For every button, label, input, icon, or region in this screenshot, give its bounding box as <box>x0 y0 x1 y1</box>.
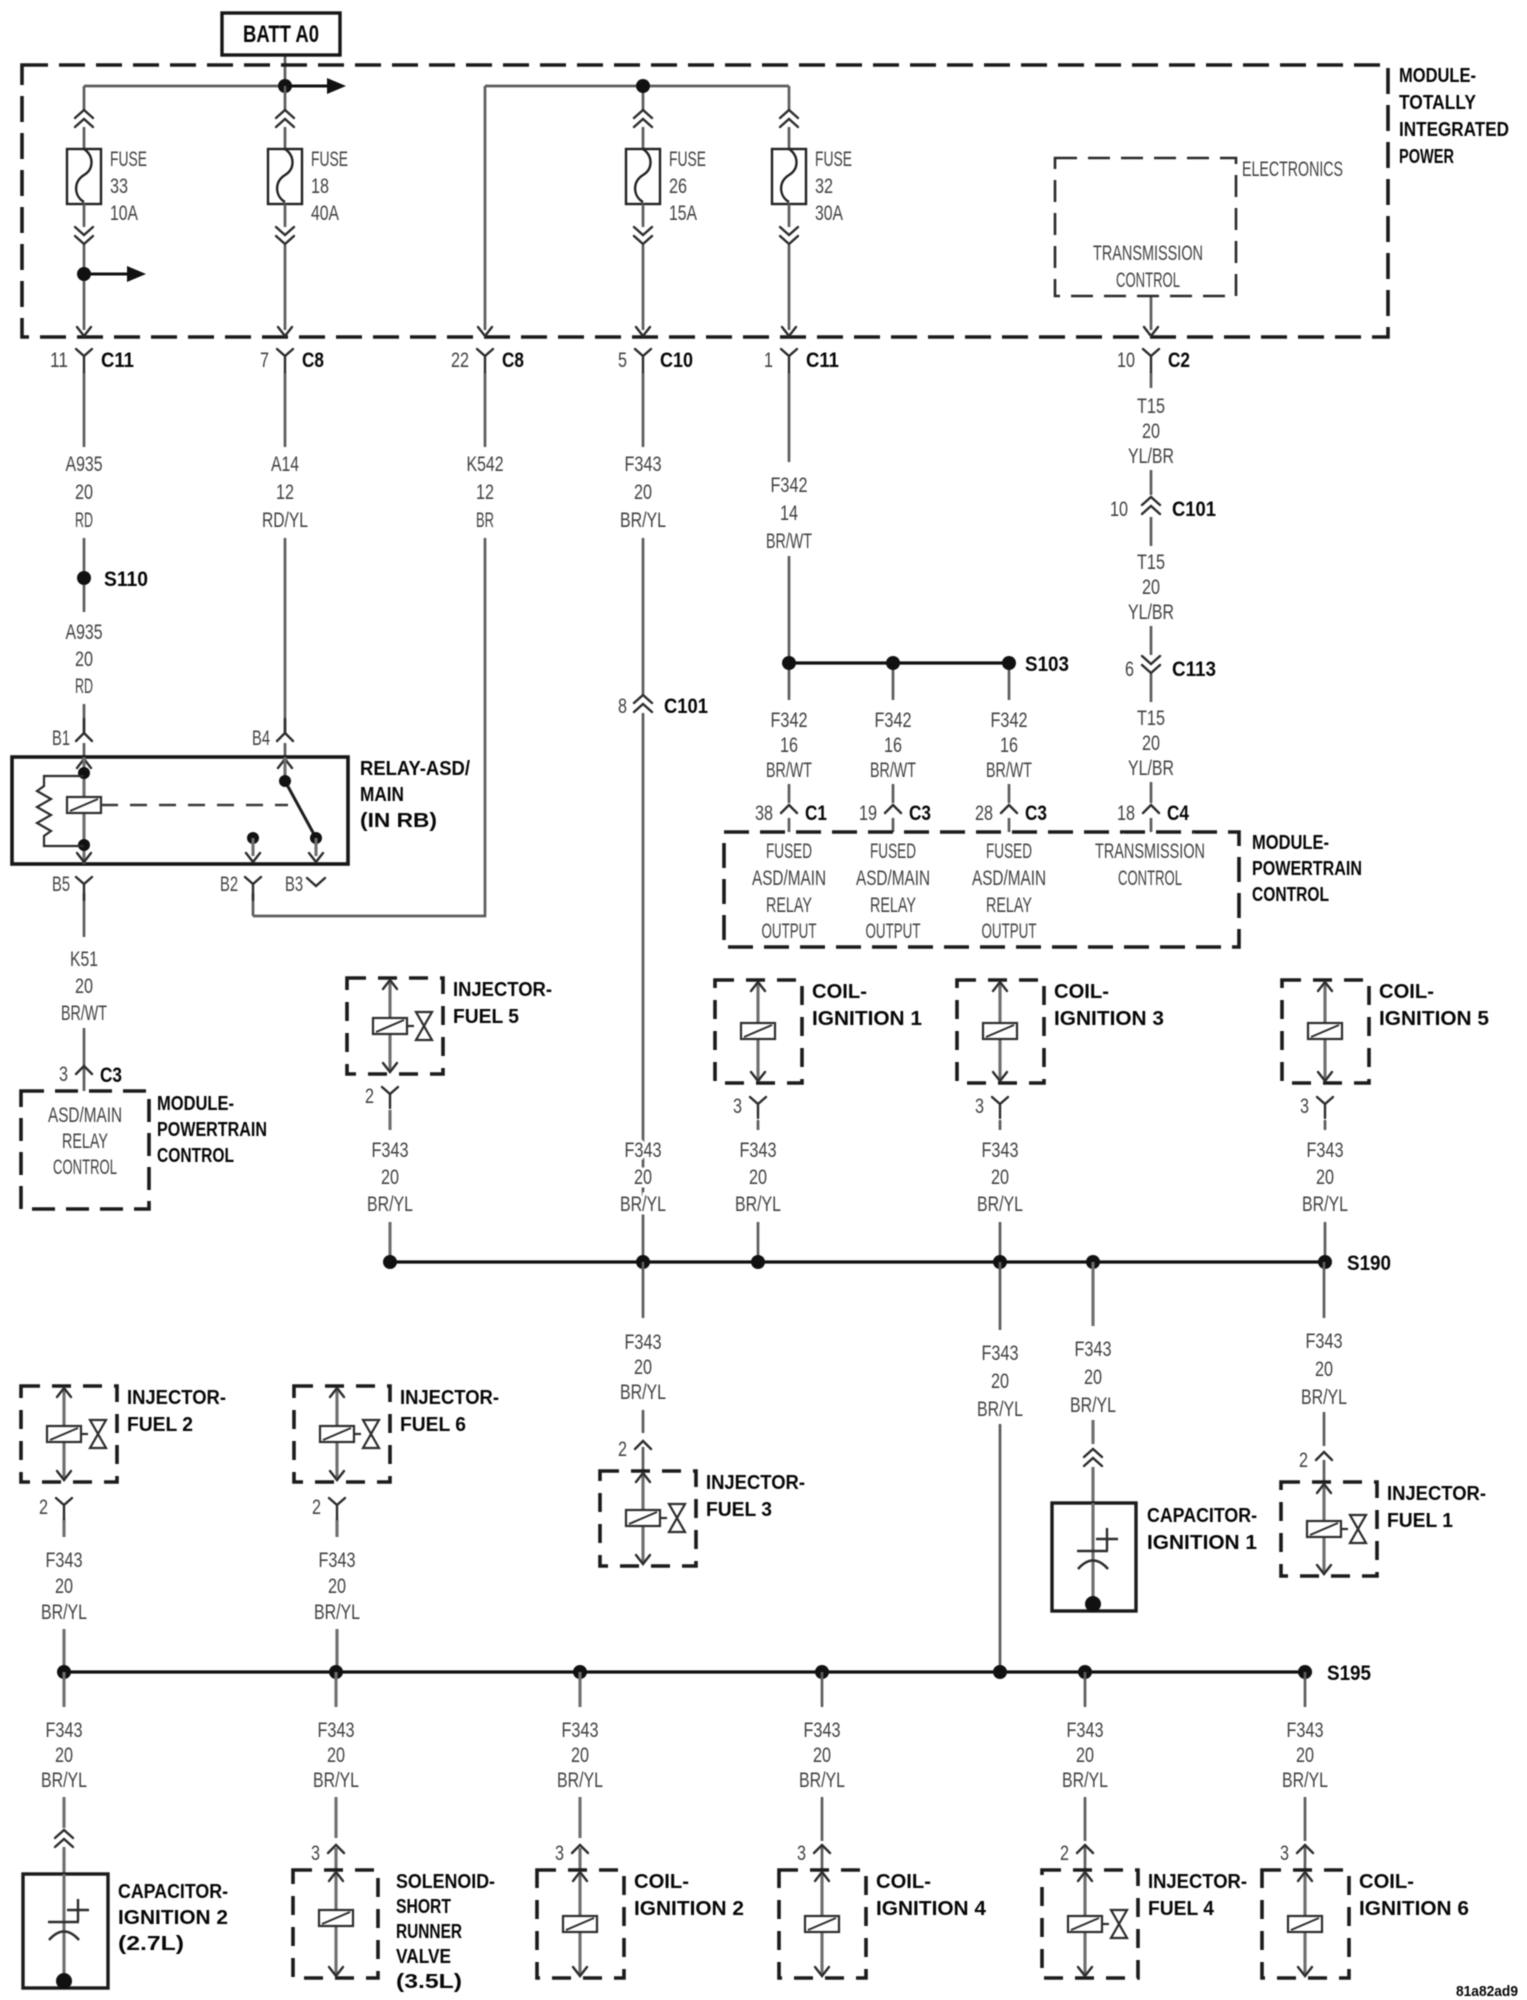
svg-text:INTEGRATED: INTEGRATED <box>1399 119 1509 141</box>
svg-text:FUEL 5: FUEL 5 <box>453 1006 519 1028</box>
svg-text:F343: F343 <box>1075 1338 1112 1361</box>
relay suppression resistor <box>37 776 84 846</box>
svg-text:18: 18 <box>311 175 329 198</box>
svg-text:ASD/MAIN: ASD/MAIN <box>972 867 1046 890</box>
svg-text:BR/YL: BR/YL <box>799 1769 845 1792</box>
svg-text:BR/YL: BR/YL <box>620 509 666 532</box>
svg-text:10: 10 <box>1117 349 1135 372</box>
wire fuse 18 lower <box>284 245 287 330</box>
svg-text:20: 20 <box>75 481 93 504</box>
svg-text:BR: BR <box>476 509 494 532</box>
splice dots S195 <box>57 1665 71 1679</box>
junction dot fused output tap <box>77 267 91 281</box>
svg-text:20: 20 <box>634 1356 652 1379</box>
svg-text:1: 1 <box>764 349 773 372</box>
svg-text:MODULE-: MODULE- <box>1399 65 1476 87</box>
wire arrow feed right of BATT junction <box>285 85 327 88</box>
svg-text:TRANSMISSION: TRANSMISSION <box>1093 242 1203 265</box>
wire A14 to relay B4 <box>284 538 287 733</box>
svg-text:BR/WT: BR/WT <box>986 759 1032 782</box>
wire fuse 33 column upper <box>83 86 86 110</box>
svg-text:INJECTOR-: INJECTOR- <box>400 1387 499 1409</box>
fuse F32 <box>772 110 852 244</box>
svg-text:3: 3 <box>59 1063 68 1086</box>
svg-text:YL/BR: YL/BR <box>1128 757 1174 780</box>
svg-text:11: 11 <box>50 349 68 372</box>
svg-text:20: 20 <box>1142 732 1160 755</box>
svg-text:B3: B3 <box>285 873 303 896</box>
svg-text:3: 3 <box>1280 1842 1289 1865</box>
wire A14 upper segment <box>284 372 287 447</box>
wire S195 to capacitor2 <box>62 1672 65 1707</box>
connector C10 pin 5 <box>618 327 693 372</box>
module powertrain control box left <box>21 1091 149 1209</box>
wire K542 segment <box>484 372 487 447</box>
svg-text:3: 3 <box>733 1095 742 1118</box>
svg-text:C1: C1 <box>805 802 827 825</box>
svg-text:T15: T15 <box>1137 707 1165 730</box>
fuse F18 <box>268 110 348 244</box>
svg-text:F343: F343 <box>46 1549 83 1572</box>
svg-text:32: 32 <box>815 175 833 198</box>
svg-text:2: 2 <box>618 1438 627 1461</box>
splice dots S190 <box>383 1255 397 1269</box>
wire S190 to S195 feed lower <box>999 1424 1002 1672</box>
svg-text:IGNITION 6: IGNITION 6 <box>1359 1898 1469 1920</box>
svg-text:A935: A935 <box>66 453 103 476</box>
svg-text:VALVE: VALVE <box>396 1946 451 1968</box>
wire B2 stub <box>252 893 255 916</box>
svg-text:F343: F343 <box>1306 1330 1343 1353</box>
module totally integrated power box <box>22 65 1388 337</box>
svg-text:F343: F343 <box>318 1719 355 1742</box>
svg-text:38: 38 <box>755 802 773 825</box>
svg-text:C11: C11 <box>101 349 134 372</box>
wire fuse 26 column upper <box>642 86 645 110</box>
svg-text:F343: F343 <box>562 1719 599 1742</box>
svg-text:C4: C4 <box>1167 802 1189 825</box>
ignition coil 5 <box>1282 980 1489 1083</box>
svg-text:7: 7 <box>260 349 269 372</box>
svg-text:20: 20 <box>1076 1744 1094 1767</box>
injector fuel 1 <box>1281 1482 1486 1576</box>
wire TCM electronics drop <box>1150 296 1153 330</box>
svg-text:FUEL 3: FUEL 3 <box>706 1499 772 1521</box>
svg-text:BR/WT: BR/WT <box>61 1002 107 1025</box>
svg-text:16: 16 <box>884 734 902 757</box>
injector5 pin 2 <box>382 1087 398 1108</box>
svg-text:T15: T15 <box>1137 395 1165 418</box>
splice S195 bus <box>64 1670 1312 1673</box>
svg-text:(2.7L): (2.7L) <box>118 1933 184 1955</box>
svg-text:ELECTRONICS: ELECTRONICS <box>1242 158 1343 181</box>
capacitor ignition 1 <box>1052 1503 1136 1612</box>
svg-text:CONTROL: CONTROL <box>53 1156 117 1179</box>
wire S190 to capacitor1 <box>1091 1262 1094 1326</box>
svg-text:C101: C101 <box>664 695 708 718</box>
svg-text:COIL-: COIL- <box>812 981 867 1003</box>
svg-text:INJECTOR-: INJECTOR- <box>706 1472 805 1494</box>
svg-text:IGNITION 1: IGNITION 1 <box>812 1008 922 1030</box>
relay normally-closed contact B2 <box>247 832 259 844</box>
svg-text:A935: A935 <box>66 621 103 644</box>
svg-text:18: 18 <box>1117 802 1135 825</box>
svg-text:2: 2 <box>1299 1449 1308 1472</box>
svg-text:IGNITION 4: IGNITION 4 <box>876 1898 987 1920</box>
svg-text:FUSE: FUSE <box>669 148 706 171</box>
wire F342 to splice S103 <box>788 556 791 663</box>
svg-text:COIL-: COIL- <box>1379 981 1434 1003</box>
svg-text:MODULE-: MODULE- <box>157 1093 234 1115</box>
svg-text:COIL-: COIL- <box>634 1871 689 1893</box>
svg-text:FUEL 4: FUEL 4 <box>1148 1898 1215 1920</box>
svg-text:RD/YL: RD/YL <box>262 509 308 532</box>
connector C3 pin 28 <box>1001 805 1017 813</box>
svg-text:C3: C3 <box>1025 802 1047 825</box>
svg-text:BR/WT: BR/WT <box>766 530 812 553</box>
svg-text:IGNITION 3: IGNITION 3 <box>1054 1008 1164 1030</box>
svg-text:BR/YL: BR/YL <box>313 1769 359 1792</box>
svg-text:BR/YL: BR/YL <box>977 1398 1023 1421</box>
svg-text:FUEL 6: FUEL 6 <box>400 1414 466 1436</box>
relay coil branch wire <box>82 757 85 864</box>
electronics transmission control box <box>1055 158 1236 296</box>
svg-text:CONTROL: CONTROL <box>1116 269 1180 292</box>
wire F343 C101 to S190 <box>642 713 645 1262</box>
svg-text:F343: F343 <box>982 1139 1019 1162</box>
svg-text:20: 20 <box>634 481 652 504</box>
splice S103 bus <box>789 661 1009 664</box>
svg-text:14: 14 <box>780 502 798 525</box>
svg-text:F343: F343 <box>1307 1139 1344 1162</box>
svg-text:F343: F343 <box>625 1331 662 1354</box>
wire fuse 33 to S110 tap <box>83 245 86 330</box>
wire S190 to injector3 <box>642 1262 645 1318</box>
svg-text:S195: S195 <box>1327 1662 1371 1685</box>
inline connector above capacitor1 <box>1084 1449 1102 1466</box>
splice S110 <box>77 571 91 585</box>
wire T15 to C101-10 <box>1150 470 1153 495</box>
relay pin B2 <box>245 877 261 900</box>
svg-text:(3.5L): (3.5L) <box>396 1971 462 1993</box>
wire S195 to coil ignition2 <box>578 1672 581 1707</box>
svg-text:F343: F343 <box>46 1719 83 1742</box>
connector C3 pin 3 <box>76 1066 92 1074</box>
connector C8 pin 7 <box>260 327 324 372</box>
svg-text:IGNITION 2: IGNITION 2 <box>634 1898 744 1920</box>
wire injector2 to S195 <box>62 1519 65 1537</box>
inline connector C113 pin 6 <box>1142 656 1160 673</box>
svg-text:OUTPUT: OUTPUT <box>982 920 1037 943</box>
ignition coil2 pin 3 <box>572 1845 588 1853</box>
svg-text:YL/BR: YL/BR <box>1128 445 1174 468</box>
svg-text:20: 20 <box>1316 1166 1334 1189</box>
svg-text:BR/YL: BR/YL <box>735 1193 781 1216</box>
svg-text:FUSED: FUSED <box>986 840 1032 863</box>
inline connector above capacitor2 <box>55 1830 73 1847</box>
capacitor ignition 2 <box>23 1874 108 1989</box>
svg-text:RELAY: RELAY <box>986 894 1032 917</box>
wire S195 to coil ignition6 <box>1304 1672 1307 1707</box>
svg-text:OUTPUT: OUTPUT <box>762 920 817 943</box>
wire battery feed horizontal left <box>84 85 285 88</box>
svg-text:2: 2 <box>365 1085 374 1108</box>
wire A935 upper segment <box>83 372 86 447</box>
connector fork at (84,733) <box>76 719 92 741</box>
svg-text:2: 2 <box>39 1496 48 1519</box>
connector C2 pin 10 <box>1117 327 1190 372</box>
svg-text:20: 20 <box>1142 576 1160 599</box>
svg-text:8: 8 <box>618 695 627 718</box>
svg-text:MAIN: MAIN <box>360 784 404 806</box>
injector fuel 5 <box>347 978 552 1074</box>
relay switch common wire <box>283 757 286 781</box>
wire T15 below C2 <box>1150 372 1153 388</box>
inline connector C101 pin 10 <box>1142 497 1160 514</box>
svg-text:CAPACITOR-: CAPACITOR- <box>1147 1505 1257 1527</box>
wire T15 between C101 and C113 <box>1150 517 1153 546</box>
svg-text:FUSED: FUSED <box>766 840 812 863</box>
svg-text:FUSE: FUSE <box>815 148 852 171</box>
svg-text:S110: S110 <box>104 568 148 591</box>
svg-text:COIL-: COIL- <box>876 1871 931 1893</box>
module powertrain control box right <box>724 832 1239 947</box>
wire injector5 to S190 <box>388 1110 391 1130</box>
svg-text:F342: F342 <box>991 709 1028 732</box>
svg-text:COIL-: COIL- <box>1054 981 1109 1003</box>
svg-text:MODULE-: MODULE- <box>1252 832 1329 854</box>
svg-text:C113: C113 <box>1172 658 1216 681</box>
S103 drop 2 <box>892 663 895 700</box>
svg-text:20: 20 <box>55 1575 73 1598</box>
svg-text:30A: 30A <box>815 202 843 225</box>
injector fuel 6 <box>294 1386 499 1482</box>
relay B4 entry arrow <box>278 759 292 768</box>
wire fuse 32 lower <box>788 245 791 330</box>
connector C8 pin 22 <box>451 327 524 372</box>
wire A935 lower segment <box>83 585 86 612</box>
svg-text:CONTROL: CONTROL <box>1118 867 1182 890</box>
svg-text:FUEL 1: FUEL 1 <box>1387 1510 1453 1532</box>
svg-text:RELAY: RELAY <box>62 1130 108 1153</box>
relay B5 exit arrow <box>77 853 91 862</box>
svg-text:BR/YL: BR/YL <box>1302 1193 1348 1216</box>
svg-text:20: 20 <box>634 1166 652 1189</box>
svg-text:2: 2 <box>312 1496 321 1519</box>
svg-text:YL/BR: YL/BR <box>1128 601 1174 624</box>
svg-text:3: 3 <box>311 1842 320 1865</box>
svg-text:POWER: POWER <box>1399 146 1454 168</box>
wire injector6 to S195 <box>335 1519 338 1537</box>
relay actuation dashed link <box>101 804 288 806</box>
svg-text:B5: B5 <box>52 873 70 896</box>
wire T15 between C113 and C4 <box>1150 674 1153 702</box>
coil3 pin 3 <box>992 1097 1008 1118</box>
svg-text:C8: C8 <box>502 349 524 372</box>
connector C1 pin 38 <box>781 805 797 813</box>
connector C4 pin 18 <box>1143 805 1159 813</box>
svg-text:20: 20 <box>75 648 93 671</box>
svg-text:POWERTRAIN: POWERTRAIN <box>157 1119 267 1141</box>
connector C11 pin 11 <box>50 327 134 372</box>
svg-text:B2: B2 <box>220 873 238 896</box>
svg-text:F343: F343 <box>625 1139 662 1162</box>
wire relay output bus horizontal top right <box>485 85 789 88</box>
connector C11 pin 1 <box>764 327 839 372</box>
injector fuel 2 <box>21 1386 226 1482</box>
svg-text:C8: C8 <box>302 349 324 372</box>
svg-text:A14: A14 <box>271 453 299 476</box>
svg-text:40A: 40A <box>311 202 339 225</box>
svg-text:10: 10 <box>1110 498 1128 521</box>
S103 drop 3 <box>1008 663 1011 700</box>
svg-text:20: 20 <box>1084 1366 1102 1389</box>
svg-text:IGNITION 2: IGNITION 2 <box>118 1907 228 1929</box>
svg-text:INJECTOR-: INJECTOR- <box>1387 1483 1486 1505</box>
coil5 pin 3 <box>1317 1097 1333 1118</box>
svg-text:CONTROL: CONTROL <box>1252 884 1329 906</box>
svg-text:SOLENOID-: SOLENOID- <box>396 1871 495 1893</box>
wire F343 to C101-8 <box>642 538 645 694</box>
svg-text:BR/YL: BR/YL <box>1062 1769 1108 1792</box>
svg-text:20: 20 <box>571 1744 589 1767</box>
splice dots S103 <box>782 656 796 670</box>
relay switch blade <box>285 781 316 838</box>
svg-text:INJECTOR-: INJECTOR- <box>1148 1871 1247 1893</box>
svg-text:12: 12 <box>476 481 494 504</box>
svg-text:20: 20 <box>991 1370 1009 1393</box>
svg-text:C11: C11 <box>806 349 839 372</box>
svg-text:IGNITION 5: IGNITION 5 <box>1379 1008 1489 1030</box>
svg-text:S190: S190 <box>1347 1252 1391 1275</box>
solenoid pin 3 <box>328 1845 344 1853</box>
junction dot BATT A0 <box>278 79 292 93</box>
svg-text:20: 20 <box>1296 1744 1314 1767</box>
svg-text:F343: F343 <box>740 1139 777 1162</box>
wire F342 below C11-1 <box>788 372 791 462</box>
svg-text:28: 28 <box>975 802 993 825</box>
relay switch output wire B3 <box>314 838 317 856</box>
svg-text:C101: C101 <box>1172 498 1216 521</box>
svg-text:F343: F343 <box>372 1139 409 1162</box>
svg-text:C3: C3 <box>909 802 931 825</box>
ignition coil 3 <box>957 980 1164 1083</box>
svg-text:F343: F343 <box>319 1549 356 1572</box>
svg-text:20: 20 <box>813 1744 831 1767</box>
svg-text:16: 16 <box>780 734 798 757</box>
svg-text:INJECTOR-: INJECTOR- <box>453 979 552 1001</box>
svg-text:81a82ad9: 81a82ad9 <box>1456 1983 1518 2000</box>
wire coil5 to S190 <box>1324 1120 1327 1130</box>
wire K51 below relay B5 <box>83 893 86 937</box>
svg-text:20: 20 <box>1315 1358 1333 1381</box>
svg-text:BATT A0: BATT A0 <box>243 21 319 48</box>
svg-text:12: 12 <box>276 481 294 504</box>
ignition coil6 pin 3 <box>1297 1845 1313 1853</box>
svg-text:RELAY: RELAY <box>870 894 916 917</box>
wire S190 to injector1 <box>1323 1262 1326 1318</box>
svg-text:BR/YL: BR/YL <box>977 1193 1023 1216</box>
BATT A0 box <box>222 13 340 55</box>
wire T15 into PCM C4 <box>1150 818 1153 832</box>
svg-text:BR/YL: BR/YL <box>314 1601 360 1624</box>
svg-text:BR/YL: BR/YL <box>41 1769 87 1792</box>
wire fuse 26 lower <box>642 245 645 330</box>
wire S195 to solenoid <box>334 1672 337 1707</box>
ignition coil 4 <box>779 1870 987 1978</box>
wire K542 to B2 corner <box>253 538 485 916</box>
svg-text:BR/YL: BR/YL <box>557 1769 603 1792</box>
ignition coil4 pin 3 <box>814 1845 830 1853</box>
svg-text:F342: F342 <box>771 474 808 497</box>
splice S190 bus <box>390 1260 1325 1263</box>
svg-text:CONTROL: CONTROL <box>157 1145 234 1167</box>
svg-text:F343: F343 <box>1287 1719 1324 1742</box>
wire S195 to coil ignition4 <box>821 1672 824 1707</box>
svg-text:F343: F343 <box>1067 1719 1104 1742</box>
svg-text:OUTPUT: OUTPUT <box>866 920 921 943</box>
fuse F33 <box>67 110 147 244</box>
svg-text:20: 20 <box>381 1166 399 1189</box>
relay pin B3 <box>307 878 325 886</box>
relay pin B5 <box>76 877 92 900</box>
svg-text:ASD/MAIN: ASD/MAIN <box>752 867 826 890</box>
relay coil symbol <box>67 797 101 813</box>
svg-text:3: 3 <box>797 1842 806 1865</box>
svg-text:20: 20 <box>991 1166 1009 1189</box>
svg-text:BR/YL: BR/YL <box>367 1193 413 1216</box>
wire F343 below C10 <box>642 372 645 447</box>
svg-text:33: 33 <box>110 175 128 198</box>
relay B1 entry arrow <box>77 759 91 768</box>
svg-text:RD: RD <box>75 675 93 698</box>
wire coil1 to S190 <box>757 1120 760 1130</box>
wire S190 to S195 feed upper <box>999 1262 1002 1330</box>
svg-text:BR/WT: BR/WT <box>870 759 916 782</box>
svg-text:FUEL 2: FUEL 2 <box>127 1414 193 1436</box>
svg-text:6: 6 <box>1125 658 1134 681</box>
svg-text:B4: B4 <box>252 727 270 750</box>
wire fuse 18 column upper <box>284 86 287 110</box>
svg-text:BR/YL: BR/YL <box>620 1193 666 1216</box>
wire BATT A0 drop <box>284 55 287 86</box>
connector C3 pin 19 <box>885 805 901 813</box>
ignition coil 1 <box>715 980 922 1083</box>
injector fuel 4 <box>1042 1870 1247 1978</box>
fuse F26 <box>626 110 706 244</box>
inline connector C101 pin 8 <box>634 695 652 712</box>
ignition coil 2 <box>537 1870 744 1978</box>
solenoid short runner valve <box>293 1870 378 1978</box>
svg-text:(IN RB): (IN RB) <box>360 810 437 832</box>
svg-text:BR/YL: BR/YL <box>1282 1769 1328 1792</box>
svg-text:20: 20 <box>749 1166 767 1189</box>
svg-text:20: 20 <box>75 975 93 998</box>
svg-text:RELAY-ASD/: RELAY-ASD/ <box>360 758 470 780</box>
svg-text:22: 22 <box>451 349 469 372</box>
svg-text:IGNITION 1: IGNITION 1 <box>1147 1532 1257 1554</box>
svg-text:5: 5 <box>618 349 627 372</box>
svg-text:RUNNER: RUNNER <box>396 1921 462 1943</box>
svg-text:COIL-: COIL- <box>1359 1871 1414 1893</box>
svg-text:RELAY: RELAY <box>766 894 812 917</box>
svg-text:FUSE: FUSE <box>110 148 147 171</box>
wire coil3 to S190 <box>999 1120 1002 1130</box>
svg-text:10A: 10A <box>110 202 138 225</box>
wire C8-22 riser inside TIPM <box>484 86 487 330</box>
svg-text:3: 3 <box>1300 1095 1309 1118</box>
svg-text:BR/YL: BR/YL <box>41 1601 87 1624</box>
